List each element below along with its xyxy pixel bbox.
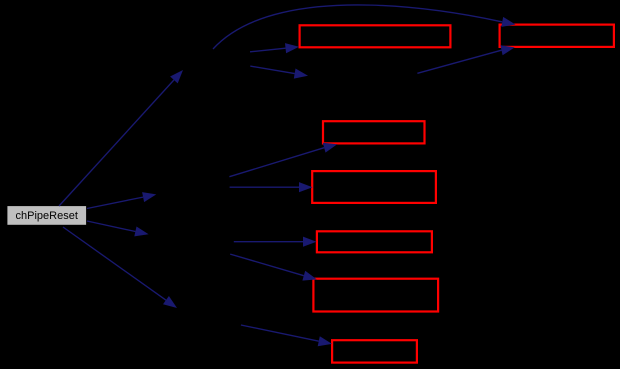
edge hidden node2 to box3 [229,143,337,177]
node box1 (red, top middle) [300,25,451,47]
node box3 (red) [323,121,425,143]
edge hidden node4 to box7 [241,325,332,346]
node chPipeReset (grey root node) [7,206,87,226]
edge chPipeReset to hidden node4 [63,227,177,308]
edge hidden node1 to box2 (top curve) [213,5,516,49]
edge hidden node2 to box4 [230,182,313,192]
edge hidden node1 to box1 [250,43,299,53]
edge chPipeReset to hidden node1 [59,70,183,206]
edge hidden node1 to hidden node1b [250,66,308,79]
node box4 (red, two-line) [312,171,436,203]
node box6 (red, two-line) [313,279,438,312]
edge hidden node1b to box2 [417,45,514,73]
edge chPipeReset to hidden node2 [87,192,156,208]
node box7 (red, bottom) [332,340,417,362]
node box5 (red) [317,231,432,252]
svg-text:chPipeReset: chPipeReset [16,210,78,222]
edge chPipeReset to hidden node3 [87,221,149,236]
edge hidden node3 to box6 [230,254,317,281]
edge hidden node3 to box5 [234,237,317,247]
node box2 (red, top right) [500,25,614,47]
